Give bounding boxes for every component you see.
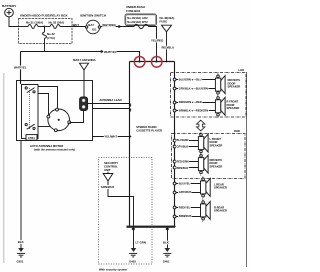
wire BRN/BLK to driver's door speaker (RHD) — [173, 166, 198, 170]
svg-text:UNIT: UNIT — [104, 168, 111, 172]
driver's door speaker SP4 (RHD) — [198, 153, 222, 177]
svg-text:RED/GRN: RED/GRN — [176, 160, 188, 164]
svg-text:No.33 (50A): No.33 (50A) — [49, 21, 65, 25]
svg-text:BATTERY: BATTERY — [2, 4, 17, 8]
svg-text:WHT/YEL: WHT/YEL — [14, 66, 27, 70]
ground G403 — [129, 248, 137, 263]
svg-text:(7.5A): (7.5A) — [47, 36, 55, 40]
battery B1 — [2, 4, 17, 17]
wire relay to motor upper — [38, 87, 58, 109]
svg-text:YEL/WHT: YEL/WHT — [104, 134, 117, 138]
svg-text:RED/BLU: RED/BLU — [162, 45, 175, 49]
wire GRY/BLK to L front door speaker — [173, 145, 198, 149]
svg-text:WHT/RED: WHT/RED — [102, 23, 115, 27]
svg-text:No.20(10A) R/Y2: No.20(10A) R/Y2 — [127, 20, 148, 24]
auto antenna motor box — [17, 81, 93, 141]
svg-text:LT GRN: LT GRN — [136, 241, 146, 245]
svg-text:MAST ANTENNA: MAST ANTENNA — [73, 58, 96, 62]
svg-text:G401: G401 — [163, 259, 170, 263]
wire between fuses — [38, 26, 50, 28]
wire battery to fuse box — [9, 17, 18, 27]
R front door speaker SP2 — [215, 95, 239, 119]
R rear speaker SP6 — [201, 200, 227, 224]
svg-text:WHT: WHT — [73, 23, 80, 27]
svg-text:FUSE BOX: FUSE BOX — [126, 9, 140, 13]
svg-text:BLU/GRN◄—BLU: BLU/GRN◄—BLU — [179, 78, 202, 82]
svg-text:BRN/BLK: BRN/BLK — [176, 166, 188, 170]
wire YEL/WHT antenna control — [93, 134, 132, 138]
RHD speaker box — [172, 129, 246, 179]
svg-text:IGNITION SWITCH: IGNITION SWITCH — [80, 13, 106, 17]
svg-text:(with the antenna retracted on: (with the antenna retracted only) — [34, 148, 75, 152]
svg-text:BAT: BAT — [88, 23, 94, 27]
fuse No.32 (7.5A) vertical — [42, 27, 55, 40]
junction dot at WHT/YEL pin — [138, 60, 140, 62]
svg-text:SPEAKER: SPEAKER — [214, 186, 227, 190]
junction dot A — [44, 26, 46, 28]
caption auto antenna motor — [30, 144, 75, 152]
wire fuse33 to ignition switch, WHT — [60, 23, 86, 27]
wire BLU/GRN to driver's door speaker — [173, 78, 215, 82]
ground wire from antenna motor box — [18, 141, 25, 249]
svg-text:BRN/WHT: BRN/WHT — [179, 214, 192, 218]
fuse No.46 (30A) — [160, 16, 175, 32]
svg-text:With security system: With security system — [99, 267, 127, 271]
scan artifact left border line — [3, 73, 5, 263]
svg-text:SPEAKER: SPEAKER — [214, 209, 227, 213]
svg-text:FUSE: FUSE — [160, 20, 168, 24]
svg-text:AUTO ANTENNA MOTOR: AUTO ANTENNA MOTOR — [30, 144, 63, 148]
svg-text:GRY/BLK◄—BLU/GRN: GRY/BLK◄—BLU/GRN — [179, 87, 208, 91]
svg-text:RED/YEL: RED/YEL — [179, 206, 191, 210]
security control unit box — [99, 158, 153, 272]
svg-text:G551: G551 — [17, 259, 24, 263]
svg-text:No.10(10A) L/R2: No.10(10A) L/R2 — [127, 16, 148, 20]
mast antenna — [73, 58, 96, 97]
under-dash fuse box — [125, 5, 157, 25]
svg-text:GRN/WHT: GRN/WHT — [101, 185, 115, 189]
wire BLU/GRN to L front door speaker — [173, 138, 198, 142]
svg-text:GRY/BLK: GRY/BLK — [176, 145, 188, 149]
wire RED/GRN to driver's door speaker (RHD) — [173, 160, 198, 164]
svg-text:ANTENNA LEAD: ANTENNA LEAD — [99, 98, 121, 102]
wire GRN/WHT to radio ground bus — [101, 181, 134, 226]
svg-text:G403: G403 — [129, 259, 136, 263]
radio ground wire BLK — [163, 228, 170, 249]
fuse No.33 (50A) — [49, 21, 65, 29]
L rear speaker SP5 — [201, 177, 227, 201]
wire GRY/BLK to driver's door speaker — [173, 87, 215, 91]
wire fuse32 down to WHT/YEL run — [44, 38, 46, 51]
svg-text:SPEAKER: SPEAKER — [228, 85, 241, 89]
svg-text:UNDER-HOOD FUSE/RELAY BOX: UNDER-HOOD FUSE/RELAY BOX — [20, 13, 68, 17]
wire relay to motor lower — [38, 126, 50, 128]
svg-text:LHD: LHD — [239, 68, 245, 72]
security unit output symbol — [103, 172, 113, 181]
antenna lead (coax) to radio — [88, 98, 131, 112]
svg-text:SPEAKER: SPEAKER — [210, 164, 223, 168]
stereo radio cassette player U1 — [127, 62, 176, 228]
wire BLU/YEL to L rear speaker — [173, 182, 200, 186]
LHD/RHD swap arrow — [197, 120, 205, 131]
svg-text:IG1: IG1 — [92, 28, 97, 32]
svg-text:YEL/RED: YEL/RED — [151, 38, 163, 42]
ground G401 — [163, 248, 172, 263]
noise suppressor / antenna coupler — [80, 97, 88, 111]
red highlight circle 2 — [151, 57, 162, 68]
junction dot at YEL/RED pin — [155, 60, 157, 62]
LHD speaker box — [171, 68, 247, 117]
wire WHT/YEL horizontal run to radio — [21, 50, 140, 62]
wire BRN/BLK to R front door speaker — [173, 109, 215, 113]
relay / limit switch assembly — [22, 85, 39, 139]
red highlight circle 1 — [134, 57, 145, 68]
connector C551 under relay — [26, 135, 37, 141]
fuse in under-dash box — [134, 24, 149, 28]
svg-text:CASSETTE PLAYER: CASSETTE PLAYER — [136, 129, 162, 133]
page border right line — [246, 72, 248, 267]
wire WHT/RED to under-dash fuse — [101, 23, 134, 28]
svg-text:RED/GRN◄—RED: RED/GRN◄—RED — [179, 100, 202, 104]
wire RED/YEL to R rear speaker — [173, 206, 200, 210]
wire suppressor to motor — [70, 111, 84, 123]
ignition switch — [80, 13, 106, 33]
motor M1 — [47, 108, 71, 131]
svg-text:C551: C551 — [28, 136, 35, 140]
wire RED/GRN to R front door speaker — [173, 100, 215, 104]
svg-text:WHT/YEL: WHT/YEL — [104, 50, 117, 54]
wire BRN/WHT to R rear speaker — [173, 214, 200, 218]
under-hood fuse/relay box — [19, 13, 73, 43]
wire into box — [18, 26, 28, 28]
svg-text:SPEAKER: SPEAKER — [210, 143, 223, 147]
svg-text:SPEAKER: SPEAKER — [227, 106, 240, 110]
svg-text:RHD: RHD — [234, 129, 240, 133]
svg-text:GRY/WHT: GRY/WHT — [179, 190, 192, 194]
wire RED/BLU down to radio — [162, 32, 175, 63]
svg-text:No.31 (100A): No.31 (100A) — [26, 21, 43, 25]
ground G551 — [17, 248, 26, 263]
svg-text:BRN/BLK◄—RED/GRN: BRN/BLK◄—RED/GRN — [179, 109, 208, 113]
svg-text:BLU/YEL: BLU/YEL — [179, 182, 191, 186]
driver's door speaker SP1 — [215, 74, 240, 98]
wire YEL/RED down to radio — [149, 27, 164, 62]
radio ground wire LT GRN — [132, 228, 146, 249]
L front door speaker SP3 — [198, 132, 222, 156]
wire GRY/WHT to L rear speaker — [173, 190, 200, 194]
svg-text:BLK: BLK — [18, 240, 25, 244]
svg-text:BLU/GRN: BLU/GRN — [176, 138, 188, 142]
wire relay to motor left — [38, 94, 49, 116]
svg-text:BLK: BLK — [163, 241, 170, 245]
wire WHT/YEL down to antenna motor — [14, 52, 27, 85]
fuse No.31 (100A) — [26, 21, 43, 29]
